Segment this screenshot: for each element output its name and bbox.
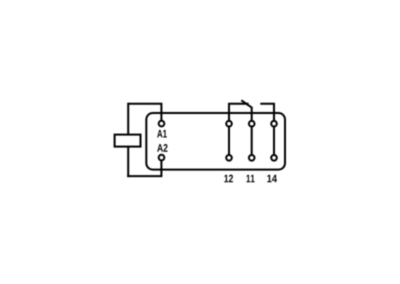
label 11: [247, 175, 255, 183]
terminal 14 upper: [271, 121, 277, 127]
label 14: [267, 175, 277, 183]
terminal 11 lower: [249, 155, 255, 161]
movable contact arm (11 to 12, normally closed): [241, 100, 252, 108]
label A1: [157, 130, 167, 138]
contact 11: common vertical lead: [251, 107, 253, 158]
wire: bottom horizontal and rise to A2: [127, 161, 161, 177]
wire: A1 drop and top horizontal to coil branch: [128, 104, 161, 121]
terminal 12 upper: [226, 121, 232, 127]
relay body K1 outline: [146, 113, 285, 170]
coil K1 rectangle: [115, 135, 141, 147]
wire: left vertical through coil: [127, 103, 129, 177]
contact 14: fixed contact stub and vertical lead: [260, 104, 274, 158]
label 12: [224, 175, 233, 183]
label A2: [157, 144, 167, 152]
terminal 14 lower: [271, 155, 277, 161]
contact 12: fixed contact bar and vertical lead: [229, 104, 249, 158]
terminal A2: [159, 155, 165, 161]
terminal 12 lower: [226, 155, 232, 161]
terminal A1: [159, 121, 165, 127]
terminal 11 upper: [249, 121, 255, 127]
